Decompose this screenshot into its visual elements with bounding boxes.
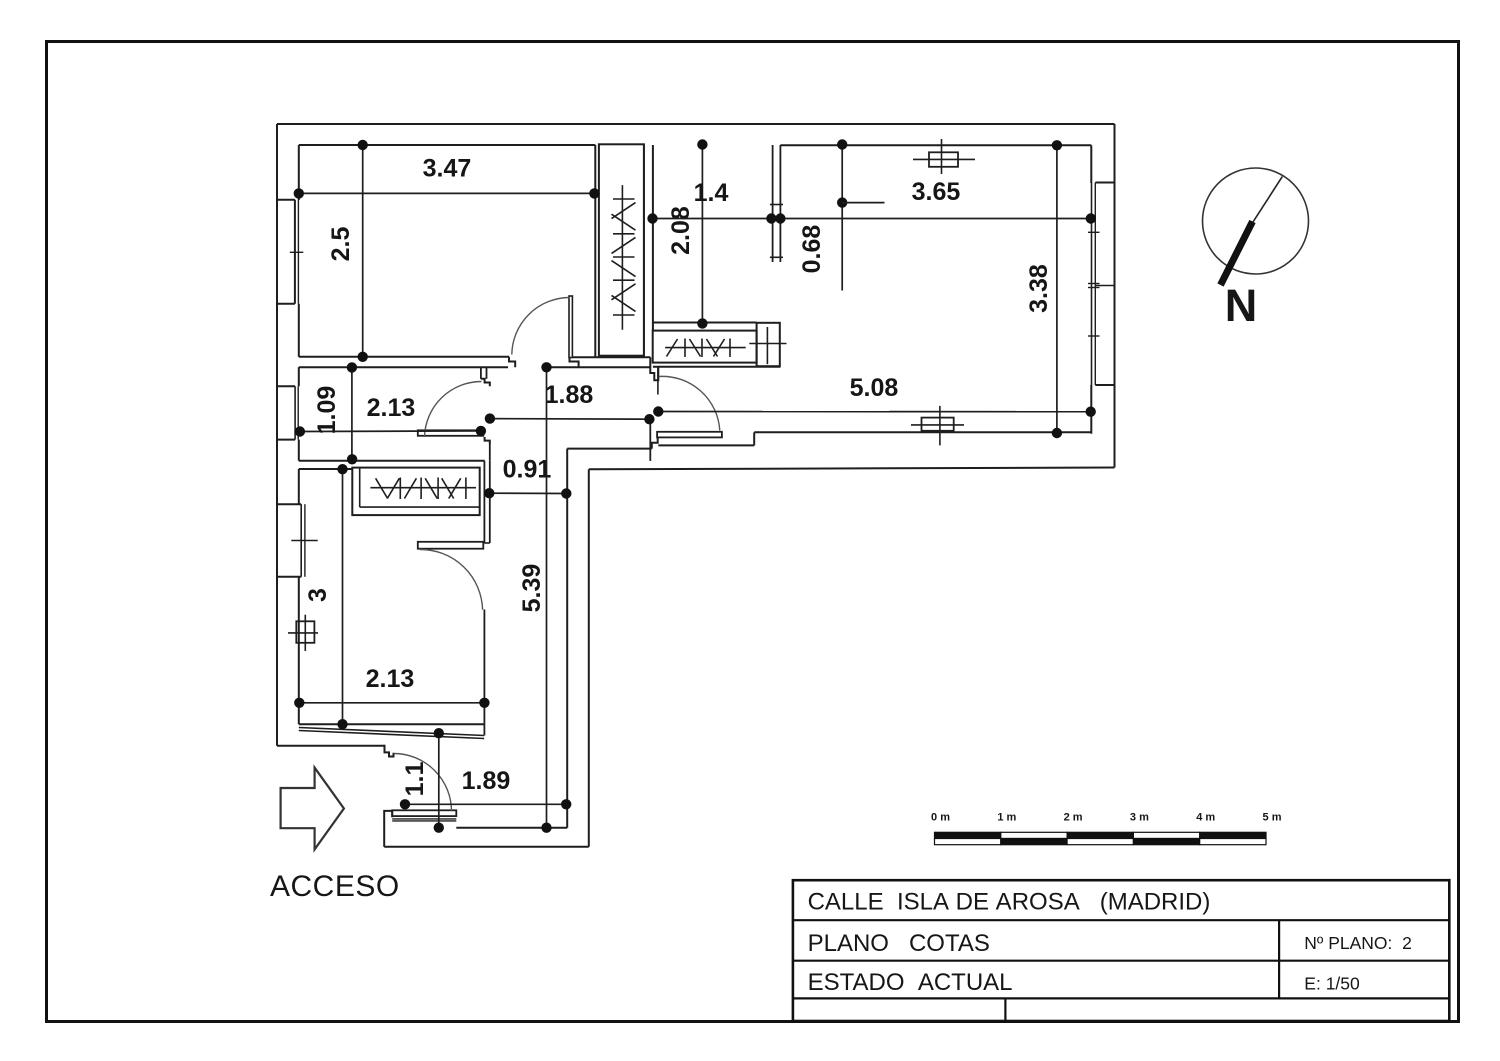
wall hall top face under closets [653,366,781,368]
dim 2.13a dots [295,426,305,436]
north circle [1203,168,1309,274]
window W3 sill top [277,503,301,505]
svg-text:3.65: 3.65 [912,178,961,206]
partition glass tick lower [770,256,783,258]
window W2 outer line [294,386,296,439]
svg-text:3 m: 3 m [1130,812,1149,824]
wall band bathroom top face [299,460,485,462]
dim 1.4/3.65 line [653,218,1091,220]
title col divider right [1278,920,1280,998]
partition F jamb lower [485,437,490,444]
wall roomH bottom inner [299,723,484,725]
window W4 outer line [1091,183,1093,386]
wall outer left [276,124,278,746]
wall living inner right lower [1090,385,1092,434]
window W4 inner line [1094,183,1096,386]
closet C3 outer box [352,468,479,515]
door D6 swing arc [394,754,452,812]
window W2 inner line [297,386,299,439]
window W1 inner line [297,200,299,304]
svg-text:0 m: 0 m [931,812,950,824]
svg-text:2.5: 2.5 [327,227,355,262]
wall roomH bottom slant upper [299,728,484,736]
door D3 swing arc [420,549,483,609]
window W3 sill bottom [277,576,301,578]
wall living inner top [780,144,1091,146]
wall roomC inner left [652,145,654,331]
window W4 sill top [1095,182,1113,184]
wall outer corridor right [588,469,590,847]
dim 2.08 dots [697,139,707,149]
wall hall top lower face [547,366,651,368]
partition roomC/living left face [772,145,774,262]
svg-text:Nº PLANO: 2: Nº PLANO: 2 [1304,933,1412,953]
wall roomH inner left upper [298,469,300,504]
door D1 jamb right [570,358,579,368]
door D2 swing arc [425,381,482,437]
window W1 center tick [290,251,304,253]
closet C2 side box [757,323,780,366]
entrance door jamb step lower [384,811,392,821]
svg-text:3.38: 3.38 [1025,264,1053,313]
door D1 jamb left [509,357,515,367]
wall living bottom inner [754,431,1090,433]
dim 3.47 line [299,192,595,194]
dim 5.08 line [658,411,1090,413]
wall hall top jamb at D4 [650,357,658,380]
window W3 center tick [291,540,317,542]
window W4 divider ticks [1088,283,1100,285]
window W1 sill bottom [277,303,295,305]
wall roomH right jamb top [484,542,489,544]
scale bar labels [931,812,1282,824]
door D1 leaf [569,296,572,358]
dim 2.5 dots [358,140,368,150]
closet C1 hanger hatch [612,185,636,330]
dim 1.1 dots [434,728,444,738]
svg-text:0.68: 0.68 [798,225,826,274]
wall roomH bottom slant lower [299,731,484,739]
partition roomC/living right face [779,145,781,262]
wall living bottom step [753,432,755,445]
door D2 leaf [418,430,484,436]
wall roomF inner left upper [298,367,300,386]
svg-text:5.08: 5.08 [850,374,899,402]
window W1 outer line [294,200,296,304]
svg-text:1 m: 1 m [997,812,1016,824]
entrance door jamb step upper [385,745,394,757]
partition F jamb upper [481,379,490,386]
dim 3 line [342,469,344,724]
closet C1 box [599,144,644,355]
wall piece right of corridor door [649,419,651,461]
svg-text:ESTADO ACTUAL: ESTADO ACTUAL [808,969,1013,996]
vent V2 on bottom wall [922,418,954,431]
partition F/hall upper [480,367,482,379]
door D3 leaf [418,542,484,549]
svg-text:5 m: 5 m [1263,812,1282,824]
svg-text:2.13: 2.13 [366,665,415,693]
dim 1.88 dots [485,413,495,423]
closet C2 box [653,331,757,363]
dim 1.4 dots [647,213,657,223]
entrance threshold lines [392,818,456,820]
svg-text:2 m: 2 m [1064,812,1083,824]
wall entrance bottom inner [456,827,567,829]
window W4 tick 2 [1088,335,1100,337]
svg-text:4 m: 4 m [1196,812,1215,824]
svg-text:PLANO COTAS: PLANO COTAS [808,930,990,957]
title row divider 1 [793,919,1449,921]
wall stub below jamb D4 [657,367,659,394]
svg-text:1.1: 1.1 [401,762,429,797]
wall roomH inner left lower [298,577,300,724]
dim 3.38 dots [1052,140,1062,150]
wall room1 inner left upper [298,145,300,200]
dim 1.09 dots [347,362,357,372]
dim 0.68 dots [837,139,847,149]
window W3 inner line [304,504,306,577]
vent V3 on left wall [296,621,314,643]
vent V1 on top wall [929,152,958,167]
dim 3 dots [337,464,347,474]
svg-text:1.89: 1.89 [462,767,511,795]
wall outer entrance left lower [383,821,385,847]
dim 0.91 dots [484,488,494,498]
door D4 leaf [657,432,722,438]
dim 3.65 dots [775,213,785,223]
wall outer right [1114,124,1116,468]
door D6 leaf [392,810,456,816]
wall roomC bottom inner [653,322,757,324]
dim 2.08 line [701,145,703,324]
svg-text:3.47: 3.47 [423,155,472,183]
wall outer top [277,123,1115,125]
svg-text:0.91: 0.91 [503,456,552,484]
wall roomF inner left lower [298,440,300,461]
scale bar [935,832,1267,844]
dim 0.91 line [489,492,566,494]
dim 0.68 line [841,145,843,291]
wall living inner right upper [1090,145,1092,183]
wall corridor left [566,449,568,828]
dim 5.08 dots [653,406,663,416]
dim 2.5 line [362,145,364,357]
wall hall top upper face [572,356,650,358]
partition F/hall lower [489,444,491,461]
title row divider 2 [793,960,1449,962]
svg-text:N: N [1225,280,1258,331]
title row divider 3 [793,997,1449,999]
partition glass tick upper [770,204,783,206]
svg-text:ACCESO: ACCESO [270,870,400,903]
door D1 swing arc [512,298,569,355]
wall band bathroom bottom face [299,468,353,470]
dim 1.89 dots [400,799,410,809]
wall room1 inner left lower [298,304,300,357]
dim 2.13b dots [294,698,304,708]
wall room1 inner right [594,145,596,357]
svg-text:E: 1/50: E: 1/50 [1304,973,1360,993]
svg-text:CALLE ISLA DE AROSA (MADRID: CALLE ISLA DE AROSA (MADRID) [808,889,1211,916]
dim 1.1 line [438,733,440,828]
window W4 divider [1095,285,1113,287]
wall roomH right upper outer [483,461,485,543]
wall hall bottom inner face [658,444,754,446]
dim 2.13b line [299,702,484,704]
door D4 swing arc [659,376,720,430]
title col divider bottom row [1004,998,1006,1021]
closet C3 inner left [359,468,361,507]
dim 3.38 line [1056,145,1058,433]
window W2 sill bottom [277,439,295,441]
dim 1.88 line [490,418,650,421]
dim 2.13a line [300,430,481,433]
window W2 sill top [277,385,295,387]
closet C3 inner bottom [360,506,480,508]
svg-text:1.09: 1.09 [313,386,341,435]
closet C2 hatch [665,339,746,358]
window W4 tick 1 [1088,231,1100,233]
wall outer bottom-left horizontal [277,745,385,747]
wall roomH right lower [483,610,485,736]
window W1 sill top [277,199,295,201]
window W4 sill bottom [1095,384,1113,386]
wall outer bottom entrance [384,846,589,848]
wall room1 bottom upper face [299,356,509,358]
wall corridor top jamb [652,437,658,449]
title block outer [793,880,1449,1021]
wall room1 inner top [299,144,596,146]
wall corridor top [567,448,652,450]
dim 1.09 line [351,367,353,460]
svg-text:1.88: 1.88 [545,381,594,409]
window W3 outer line [300,504,302,577]
dim 3.47 dots [294,188,304,198]
north needle thick [1221,222,1253,286]
dim 0.68 tick [842,202,884,204]
svg-text:2.08: 2.08 [667,206,695,255]
closet C3 hatch [370,478,476,500]
closet C2 side box inner line [766,327,768,364]
dim 1.89 line [405,803,566,805]
wall roomH right upper inner [489,461,491,543]
closet C2 side cross line [749,343,786,345]
dim 5.39 dots [541,362,551,372]
svg-text:5.39: 5.39 [518,564,546,613]
svg-text:2.13: 2.13 [367,394,416,422]
wall outer bottom of top band [589,468,1115,470]
wall room1 bottom lower face [299,366,508,368]
access arrow [281,768,344,850]
svg-text:3: 3 [304,588,332,602]
wall band right of C1 [643,144,645,355]
svg-text:1.4: 1.4 [694,179,729,207]
north needle thin [1252,177,1282,224]
dim 5.39 line [546,367,548,827]
